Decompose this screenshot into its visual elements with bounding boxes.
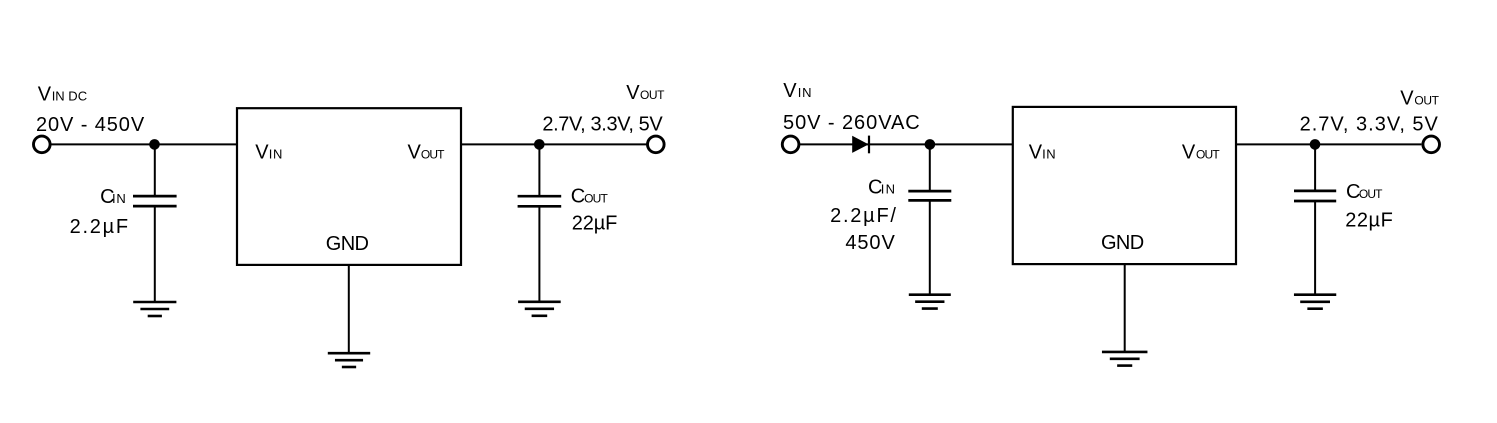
svg-text:2.7V, 3.3V, 5V: 2.7V, 3.3V, 5V bbox=[1300, 113, 1439, 135]
svg-text:IN: IN bbox=[112, 191, 127, 206]
svg-text:OUT: OUT bbox=[1359, 187, 1383, 201]
svg-text:GND: GND bbox=[326, 233, 369, 255]
svg-text:OUT: OUT bbox=[1196, 147, 1220, 161]
svg-text:V: V bbox=[1182, 141, 1196, 163]
svg-text:V: V bbox=[255, 141, 269, 163]
svg-text:OUT: OUT bbox=[584, 192, 608, 206]
svg-text:V: V bbox=[1400, 88, 1414, 110]
svg-text:V: V bbox=[783, 80, 797, 102]
svg-text:450V: 450V bbox=[845, 232, 895, 254]
svg-text:20V - 450V: 20V - 450V bbox=[36, 114, 145, 136]
svg-text:GND: GND bbox=[1101, 232, 1144, 254]
svg-text:50V - 260VAC: 50V - 260VAC bbox=[783, 112, 921, 134]
svg-text:2.2µF: 2.2µF bbox=[70, 216, 130, 238]
svg-text:OUT: OUT bbox=[1414, 94, 1439, 108]
svg-text:22µF: 22µF bbox=[572, 212, 618, 234]
svg-text:22µF: 22µF bbox=[1345, 210, 1393, 232]
svg-text:V: V bbox=[38, 84, 52, 106]
svg-text:IN DC: IN DC bbox=[52, 89, 87, 104]
svg-text:IN: IN bbox=[269, 146, 283, 161]
svg-text:V: V bbox=[408, 141, 422, 163]
svg-text:V: V bbox=[626, 82, 640, 104]
svg-text:2.7V, 3.3V, 5V: 2.7V, 3.3V, 5V bbox=[542, 113, 663, 135]
svg-text:C: C bbox=[571, 186, 585, 208]
svg-text:2.2µF/: 2.2µF/ bbox=[830, 205, 898, 227]
svg-text:IN: IN bbox=[1042, 146, 1056, 161]
svg-text:OUT: OUT bbox=[640, 88, 665, 102]
svg-text:IN: IN bbox=[798, 85, 813, 100]
svg-text:OUT: OUT bbox=[421, 147, 445, 161]
svg-text:V: V bbox=[1029, 141, 1043, 163]
svg-text:IN: IN bbox=[881, 181, 896, 196]
